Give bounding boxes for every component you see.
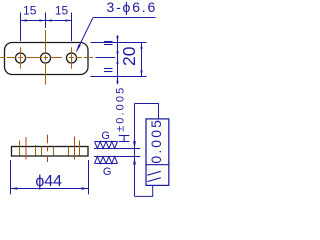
dimension 20: arrowheads — [140, 43, 142, 77]
svg-text:3-ϕ6.6: 3-ϕ6.6 — [107, 0, 158, 15]
horizontal centerline through holes — [0, 57, 93, 59]
hole 1 (left, φ6.6) — [16, 53, 26, 63]
dimension φ44: arrowheads — [11, 187, 89, 189]
parallelism leader vertical line — [134, 104, 136, 197]
side view hole edge line a2 — [35, 145, 37, 156]
vertical centerline hole 2 (long, dash-dot) — [45, 30, 47, 85]
svg-text:G: G — [103, 166, 112, 178]
leader arrowhead — [76, 44, 80, 51]
top face extension line — [94, 148, 140, 150]
side view centerline 1 — [25, 137, 27, 160]
side view centerline 2 (dash-dot) — [47, 135, 49, 163]
svg-text:±0.005: ±0.005 — [115, 86, 127, 132]
leader top arm — [135, 104, 159, 119]
svg-text:15: 15 — [55, 4, 69, 18]
side view hole edge line c1 — [68, 147, 70, 156]
right side: top edge extension line — [91, 42, 147, 44]
equal-spacing dimension line — [117, 35, 119, 84]
bottom face extension line — [94, 156, 140, 158]
feature control frame — [146, 119, 169, 185]
dimension φ44: dimension line — [11, 188, 89, 190]
plate outline (top view) — [5, 43, 89, 75]
svg-text:0.005: 0.005 — [148, 118, 164, 164]
leader bottom arm — [135, 185, 153, 196]
leader arrow to top face — [133, 141, 136, 148]
leader line to hole 3 — [76, 18, 93, 52]
svg-text:ϕ44: ϕ44 — [35, 173, 62, 190]
vertical centerline hole 1 — [20, 47, 22, 68]
side view hole edge line b2 — [53, 147, 55, 156]
dimension 15-15: arrowheads — [21, 19, 72, 21]
dimension 20: dimension line — [141, 43, 143, 77]
leader arrow to bottom face — [133, 157, 136, 164]
svg-text:20: 20 — [119, 46, 139, 66]
side view hole edge line b1 — [41, 147, 43, 156]
top finish mark band (zigzag) — [95, 142, 118, 149]
frame divider — [146, 164, 169, 166]
dimension 15-15: extension lines — [21, 13, 72, 42]
side view plate rectangle — [12, 147, 89, 157]
leader underline — [93, 17, 156, 19]
hole 3 (right, φ6.6) — [67, 53, 77, 63]
bottom finish mark band (zigzag) — [95, 157, 118, 164]
side view hole edge line c2 — [79, 141, 81, 156]
equal mark (lower) — [104, 69, 113, 72]
hole 2 (middle, φ6.6) — [41, 53, 51, 63]
svg-text:15: 15 — [23, 4, 37, 18]
svg-text:G: G — [101, 130, 110, 142]
equal mark (upper) — [104, 42, 113, 45]
equal-spacing arrowheads — [116, 36, 118, 82]
side view centerline 3 — [74, 137, 76, 160]
right side: bottom edge extension line — [91, 76, 147, 78]
parallelism symbol // — [147, 171, 161, 181]
side view hole edge line a1 — [19, 141, 21, 156]
dimension 15-15: dimension line — [21, 20, 72, 22]
vertical centerline hole 3 — [71, 47, 73, 68]
right side: centerline extension line — [96, 57, 116, 59]
dimension φ44: extension lines — [11, 160, 89, 194]
H mark (rotated H glyph) — [119, 136, 130, 142]
